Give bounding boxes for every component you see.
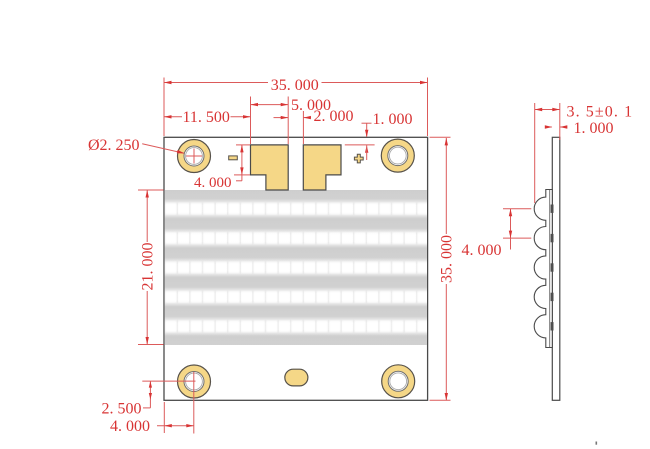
svg-text:2. 500: 2. 500 — [102, 401, 142, 418]
extension line module right edge (top) — [427, 78, 429, 137]
svg-text:11. 500: 11. 500 — [182, 109, 229, 126]
extension line module left edge (top) — [163, 78, 165, 137]
mounting hole top-right — [381, 139, 414, 172]
svg-text:3. 5±0. 1: 3. 5±0. 1 — [567, 104, 634, 121]
label diameter 2.250 with leader — [142, 144, 184, 154]
dimension 1.000 (pad top inset) — [362, 122, 372, 124]
side view board (1mm substrate) — [552, 137, 560, 400]
svg-text:35. 000: 35. 000 — [271, 77, 319, 94]
extension line module bottom (right) — [430, 399, 451, 401]
pad top extension right — [345, 144, 375, 146]
stray ink speck — [596, 442, 598, 445]
dimension 35.000 (right height) — [445, 138, 447, 234]
dimension 4.000 (pad step) — [241, 145, 243, 175]
extension line pad2 left — [302, 111, 304, 144]
LED die 5 (side) — [551, 322, 554, 330]
svg-text:1. 000: 1. 000 — [373, 111, 413, 128]
LED die 3 (side) — [551, 263, 554, 271]
extension lens tip (side) — [534, 103, 536, 203]
extension lens pitch lines — [503, 208, 531, 210]
crosshair/extension bottom-left hole — [142, 380, 195, 382]
LED die 2 (side) — [551, 234, 554, 242]
svg-text:2. 000: 2. 000 — [314, 108, 354, 125]
extension line module top (right) — [430, 136, 451, 138]
dimension 3.5 overall thickness — [535, 109, 560, 111]
crosshair top-left hole — [186, 155, 202, 157]
extension line pad1 right — [287, 97, 289, 145]
svg-text:4. 000: 4. 000 — [194, 175, 232, 191]
pad top extension left — [236, 144, 250, 146]
dimension 2.500 (hole to bottom edge) — [149, 381, 151, 399]
cathode pad (right, +) — [303, 145, 341, 190]
svg-text:4. 000: 4. 000 — [462, 242, 502, 259]
svg-text:4. 000: 4. 000 — [110, 418, 150, 435]
anode pad (left, -) — [251, 145, 289, 190]
mounting hole bottom-right — [382, 365, 415, 398]
extension line LED area bottom (left) — [138, 344, 164, 346]
extension line pad1 left — [250, 97, 252, 145]
dimension 21.000 (LED area height) — [146, 190, 148, 242]
dimension 5.000 (pad width) — [251, 104, 289, 106]
dimension 35.000 (top width) — [164, 82, 268, 84]
dimension 4.000 (hole to left edge) — [157, 425, 194, 427]
oval slot bottom center — [285, 369, 308, 386]
dimension 1.000 board thickness — [545, 126, 552, 128]
plus polarity mark — [354, 154, 363, 163]
dimension 2.000 (pad gap) — [274, 117, 289, 119]
phosphor layer line — [549, 190, 551, 347]
side view lens strip with 5 bumps — [534, 190, 552, 348]
extension module left edge (bottom) — [163, 402, 165, 433]
svg-text:Ø2. 250: Ø2. 250 — [88, 137, 140, 154]
dimension 4.000 lens pitch — [510, 209, 512, 238]
mounting hole top-left — [178, 140, 211, 173]
LED die 4 (side) — [551, 293, 554, 301]
pad step extension — [234, 174, 250, 176]
extension line LED area top (left) — [138, 189, 164, 191]
minus polarity mark — [229, 156, 238, 160]
extension board back (side) — [559, 103, 561, 140]
dimension 11.500 — [164, 116, 182, 118]
svg-text:1. 000: 1. 000 — [574, 120, 614, 137]
svg-text:35. 000: 35. 000 — [439, 235, 456, 283]
svg-text:21. 000: 21. 000 — [140, 243, 157, 291]
module body outline (front view 35x35) — [164, 137, 428, 400]
mounting hole bottom-left — [178, 365, 211, 398]
LED die 1 (side) — [551, 205, 554, 213]
